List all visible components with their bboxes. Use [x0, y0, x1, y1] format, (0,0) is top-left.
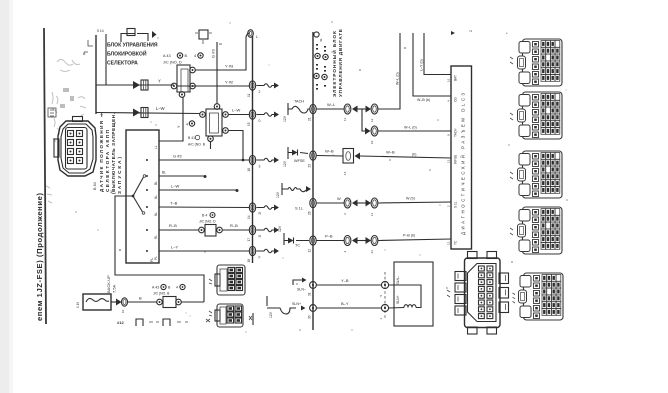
wire G #2 [159, 159, 249, 161]
B64 left latch [54, 139, 59, 157]
ECU pin 12 TC [310, 236, 316, 245]
svg-text:18: 18 [247, 259, 251, 263]
junction connector J/C No.B [157, 299, 163, 305]
wire R-B through J/C No.D [159, 229, 199, 231]
svg-text:B 41: B 41 [188, 136, 195, 140]
grey connector block B [209, 304, 243, 327]
wire W-B (b) to WFSE pin [360, 156, 451, 158]
scan noise scribbles top-left [46, 60, 86, 204]
svg-text:A 43: A 43 [163, 54, 171, 58]
svg-text:ЭЛЕКТРОННЫЙ БЛОК: ЭЛЕКТРОННЫЙ БЛОК [330, 31, 337, 97]
J/C IND stub below [210, 142, 212, 150]
BACK-UP fuse [83, 294, 111, 310]
ECU internal WFSE driver [287, 147, 289, 159]
ECU pin 26 SIL [310, 198, 316, 207]
svg-text:26: 26 [308, 211, 312, 215]
pin 11 row Y [249, 81, 255, 90]
svg-text:Y #3: Y #3 [225, 64, 234, 69]
svg-text:L–W: L–W [156, 106, 165, 111]
svg-text:21: 21 [308, 117, 312, 121]
svg-text:11: 11 [247, 93, 251, 97]
top margin letter marks [451, 31, 455, 35]
ECU pin 23 WFSE [310, 151, 316, 160]
svg-text:13: 13 [447, 159, 451, 163]
svg-text:F: F [259, 256, 261, 260]
inline connector on wire Y [133, 81, 140, 89]
svg-text:УПРАВЛЕНИЯ ДВИГАТЕ: УПРАВЛЕНИЯ ДВИГАТЕ [338, 29, 343, 97]
svg-text:12: 12 [370, 118, 374, 122]
svg-text:17: 17 [247, 238, 251, 242]
svg-text:S 1L: S 1L [454, 201, 458, 208]
svg-text:TC: TC [454, 240, 458, 245]
svg-text:W–B (b): W–B (b) [417, 98, 430, 102]
shift solenoid SLN box [394, 262, 433, 326]
inline connector node 10 [122, 298, 128, 306]
svg-text:CG: CG [454, 97, 458, 102]
wire W-B (WFSE row) [316, 155, 343, 158]
page left edge shading [0, 0, 9, 393]
switch pole wire [115, 196, 204, 302]
diagnostic connector DLC3 block [451, 66, 472, 249]
svg-text:WFSE: WFSE [454, 155, 458, 164]
wire from J/C IND joining G #2 [228, 131, 243, 161]
svg-text:14: 14 [247, 215, 251, 219]
wire B [128, 301, 158, 303]
wire LL to J/C D bottom [159, 97, 183, 141]
svg-text:(b): (b) [412, 153, 416, 157]
svg-text:P–B: P–B [325, 234, 333, 239]
svg-text:12: 12 [308, 249, 312, 253]
pin 14 row T-B [249, 203, 255, 212]
svg-text:BAT: BAT [454, 75, 458, 81]
svg-text:15: 15 [247, 122, 251, 126]
svg-text:T–B: T–B [170, 201, 178, 206]
svg-text:0: 0 [259, 119, 261, 123]
svg-text:A 43: A 43 [152, 286, 159, 290]
wire W-L (b) to TACH pin [378, 130, 451, 132]
svg-text:5 14: 5 14 [97, 29, 104, 33]
pin 18 row L-Y [249, 246, 255, 255]
svg-text:BACK-UP: BACK-UP [106, 275, 111, 293]
B64 pin grid [68, 131, 83, 164]
svg-text:NL: NL [154, 195, 158, 199]
svg-text:10: 10 [370, 140, 374, 144]
svg-text:БЛОКИРОВКОЙ: БЛОКИРОВКОЙ [107, 50, 147, 58]
svg-text:12V: 12V [269, 311, 273, 318]
svg-text:Y: Y [158, 79, 161, 84]
selector position sensor switch box [126, 130, 159, 263]
svg-text:30: 30 [308, 315, 312, 319]
switch wiper arms [133, 177, 144, 196]
svg-text:B–Y: B–Y [341, 301, 349, 306]
svg-text:L–Y: L–Y [171, 245, 178, 250]
svg-text:P–B (b): P–B (b) [403, 234, 415, 238]
ECU connector code circles [315, 53, 320, 58]
connector pair nodes 4/23 [344, 236, 351, 246]
svg-text:23: 23 [370, 250, 374, 254]
feeder wire W-B (b) from top [413, 33, 451, 96]
svg-text:12V: 12V [283, 160, 287, 167]
svg-text:49: 49 [319, 38, 323, 42]
wire W (b) to SIL pin [378, 202, 451, 203]
svg-text:PL: PL [154, 256, 158, 260]
svg-text:BL: BL [154, 181, 158, 185]
junction connector J/C No.D [177, 65, 190, 92]
svg-text:A/C (NO. B: A/C (NO. B [188, 143, 206, 147]
selector lock control unit box (БЛОК УПРАВЛЕНИЯ БЛОКИРОВКОЙ СЕЛЕКТОРА) [105, 34, 107, 85]
svg-text:SLN–: SLN– [297, 288, 306, 292]
wire BL stub [159, 175, 204, 177]
svg-text:Y–B: Y–B [341, 278, 349, 283]
bus connector column (intermediate connector) [252, 36, 254, 263]
selector sensor connector B64 (face view) [58, 121, 96, 176]
bus/node B (left supply bus) [95, 35, 97, 114]
svg-text:2: 2 [469, 30, 473, 32]
node B top tick marks [84, 40, 93, 52]
branch to node 10 [362, 109, 365, 131]
svg-text:12V: 12V [276, 191, 280, 198]
connector block row 4 [518, 207, 563, 254]
svg-text:14: 14 [343, 171, 347, 175]
svg-text:TC: TC [295, 244, 300, 248]
connector block row 5 [519, 273, 564, 320]
svg-text:W–B: W–B [325, 149, 334, 154]
ECU internal TACH driver [287, 103, 289, 115]
svg-text:L: L [256, 35, 258, 39]
svg-text:4: 4 [176, 286, 178, 290]
svg-text:СЕЛЕКТОРА: СЕЛЕКТОРА [107, 61, 138, 67]
bus node 1 lower fragment [252, 313, 254, 325]
pin 16 row G#2 [249, 155, 255, 164]
connector pair nodes 11/12 [344, 104, 351, 114]
wire W-L (b) riser [378, 33, 400, 109]
connector block row 2 [518, 92, 563, 139]
wire P-B (b) to TC pin [378, 239, 451, 241]
small aux connector mark top-left of B64 [48, 108, 56, 117]
svg-text:16: 16 [447, 78, 451, 82]
svg-text:4: 4 [194, 54, 196, 58]
connector block row 3 [518, 151, 563, 198]
wire L-Y [159, 250, 249, 252]
solenoid connector dashed boundary [384, 272, 386, 320]
wire L-W from J/C IND to node 15 [228, 114, 249, 116]
solenoid coil wiring [389, 285, 421, 308]
wire from fuse [111, 301, 117, 303]
wire Y-B (SLN- row) [317, 284, 381, 286]
wire T-B [159, 206, 249, 209]
page rule line [44, 28, 46, 324]
svg-text:11: 11 [343, 118, 347, 121]
ECU pin 21 TACH [310, 104, 316, 113]
svg-text:епем 1JZ-FSE) (Продолжение): епем 1JZ-FSE) (Продолжение) [35, 193, 44, 321]
svg-text:16: 16 [247, 168, 251, 172]
svg-text:23: 23 [308, 164, 312, 168]
svg-text:#12: #12 [117, 320, 124, 325]
svg-text:W–B: W–B [386, 150, 395, 155]
wire L-W from bus B to J/C IND [96, 113, 200, 114]
svg-text:G #3: G #3 [211, 49, 216, 58]
svg-text:TACH: TACH [294, 100, 304, 104]
ECU pin 31 SLN- [310, 282, 317, 289]
svg-text:L–W: L–W [171, 184, 179, 189]
connector end cap on node 1 [248, 30, 254, 38]
svg-text:1 19: 1 19 [76, 302, 80, 308]
wire B-Y (SLN+ row) [317, 307, 381, 309]
svg-text:4: 4 [186, 123, 188, 127]
solenoid connector pins [381, 281, 388, 288]
DLC3 connector (face view) [446, 252, 515, 335]
ECU boundary bus [312, 32, 314, 330]
ECU internal SLN+ driver [266, 296, 268, 306]
ECU top connector mark [314, 32, 319, 37]
svg-text:L–W: L–W [232, 108, 240, 113]
svg-text:12V: 12V [283, 115, 287, 122]
svg-text:RL: RL [154, 235, 158, 239]
shielded connector node 14 [343, 149, 354, 164]
svg-text:2: 2 [259, 90, 261, 94]
ECU pin 30 SLN+ [310, 305, 317, 312]
scan specks [75, 21, 568, 332]
junction connector J/C No.D (row R) [199, 227, 205, 233]
pin 15 row L-W [249, 110, 255, 119]
svg-text:J/C (NO. D: J/C (NO. D [199, 220, 216, 224]
svg-text:11: 11 [370, 213, 374, 216]
svg-text:B: B [139, 296, 142, 301]
svg-text:TACH: TACH [454, 128, 458, 137]
svg-text:WFSE: WFSE [294, 159, 305, 163]
connector pins on bus: rows [247, 81, 279, 263]
svg-text:BL: BL [162, 171, 166, 175]
svg-text:SLN+: SLN+ [396, 295, 400, 304]
feeder wire L-Y (b) from top [424, 33, 451, 75]
junction connector J/C IND [206, 109, 222, 136]
pin 17 row R-B [249, 225, 255, 234]
wire Y from control unit to J/C D [96, 84, 174, 86]
svg-text:NL: NL [154, 212, 158, 216]
svg-text:W (b): W (b) [406, 197, 415, 201]
svg-text:7,5A: 7,5A [112, 284, 117, 293]
svg-text:W–L: W–L [327, 102, 336, 107]
svg-text:R–B: R–B [230, 223, 238, 228]
svg-text:10: 10 [121, 309, 125, 313]
connector block row 1 [518, 39, 563, 86]
svg-text:Y #2: Y #2 [225, 80, 234, 85]
svg-text:J/C (NO. D: J/C (NO. D [163, 61, 182, 65]
svg-text:R–B: R–B [169, 223, 177, 228]
B64 top tab [73, 117, 83, 122]
svg-text:S 1L: S 1L [295, 207, 303, 211]
svg-text:J/C (NO. B: J/C (NO. B [153, 292, 170, 296]
ECU internal SLN- arrow [293, 280, 302, 285]
svg-text:G #2: G #2 [173, 154, 182, 159]
wire L-W stub [159, 189, 236, 191]
svg-text:W: W [337, 196, 341, 201]
svg-text:12V: 12V [278, 225, 282, 232]
svg-text:B 64: B 64 [93, 182, 97, 190]
connector pair nodes 4/11 [344, 198, 351, 208]
svg-text:W–L (b): W–L (b) [404, 126, 417, 130]
switch contact dots [146, 159, 148, 161]
svg-text:LL: LL [154, 145, 158, 149]
svg-text:W–L (b): W–L (b) [396, 72, 400, 85]
ECU internal TC driver [283, 233, 285, 245]
svg-text:3: 3 [259, 165, 261, 169]
wire Y #2 [177, 85, 249, 87]
svg-text:31: 31 [308, 292, 312, 296]
inline connector on wire L-W [133, 109, 140, 117]
wire G #3 vertical [216, 42, 218, 104]
grey connector block A [209, 265, 245, 295]
wire W (SIL row) [316, 202, 344, 204]
wire Y #3 [195, 33, 250, 70]
ECU internal SIL driver [281, 183, 283, 195]
svg-text:12: 12 [447, 241, 451, 245]
svg-text:(ВЫКЛЮЧАТЕЛЬ ЗАПРЕЩЕН.: (ВЫКЛЮЧАТЕЛЬ ЗАПРЕЩЕН. [111, 113, 116, 194]
svg-text:SLN–: SLN– [396, 276, 400, 285]
svg-text:БЛОК УПРАВЛЕНИЯ: БЛОК УПРАВЛЕНИЯ [107, 43, 158, 49]
svg-text:B 4: B 4 [202, 214, 207, 218]
svg-text:L–Y (b): L–Y (b) [420, 59, 424, 71]
svg-text:SLN+: SLN+ [292, 302, 301, 306]
svg-text:FL: FL [150, 258, 154, 262]
wire P-B (TC row) [316, 240, 344, 242]
wire W-L (TACH row) [316, 108, 344, 110]
